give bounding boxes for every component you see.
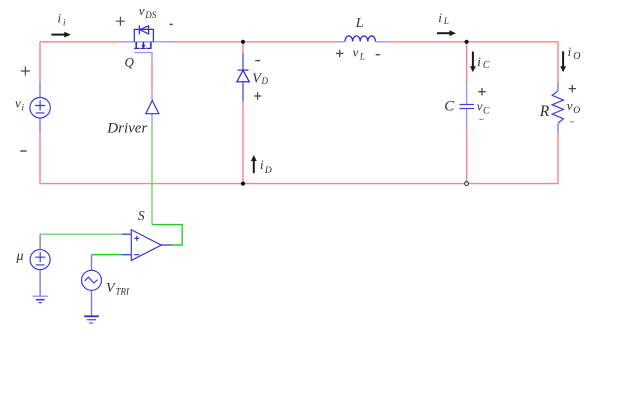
svg-text:C: C bbox=[483, 106, 490, 116]
wire comparator output stub blue bbox=[161, 244, 172, 246]
arrow ii bbox=[51, 34, 64, 36]
svg-text:S: S bbox=[138, 208, 145, 223]
wire gate lead light-blue bbox=[135, 53, 153, 124]
wire gate signal pale-green vertical (Driver to comparator net) bbox=[151, 124, 153, 225]
arrow iO bbox=[562, 51, 564, 66]
inductor L bbox=[345, 36, 375, 42]
ground (mu) bbox=[33, 295, 49, 297]
transistor Q (MOSFET with body diode) bbox=[134, 25, 153, 42]
wire inductor light-blue stubs bbox=[336, 41, 387, 43]
svg-text:Driver: Driver bbox=[106, 120, 147, 136]
ground (VTRI) bbox=[84, 315, 99, 317]
svg-text:O: O bbox=[573, 106, 580, 116]
wire VTRI source stubs blue bbox=[91, 255, 93, 317]
arrow iD bbox=[253, 161, 255, 174]
svg-text:D: D bbox=[261, 76, 269, 86]
svg-text:R: R bbox=[539, 103, 550, 120]
svg-text:v: v bbox=[15, 96, 21, 111]
node junction at diode bottom bbox=[241, 182, 245, 186]
label VD with polarity bbox=[255, 60, 260, 62]
wire comparator input stubs blue bbox=[122, 234, 131, 255]
capacitor C bbox=[460, 105, 475, 109]
node open terminal at capacitor bottom bbox=[465, 182, 469, 186]
svg-text:L: L bbox=[443, 16, 449, 26]
label vO with polarity bbox=[569, 85, 576, 92]
dc source mu bbox=[30, 250, 50, 270]
wire capacitor stubs bbox=[466, 83, 468, 131]
svg-text:i: i bbox=[438, 10, 442, 25]
wire top-left red segment bbox=[40, 41, 120, 43]
wire mu to comparator pale-green bbox=[40, 233, 122, 235]
voltage source vi bbox=[30, 98, 50, 118]
node junction at diode top bbox=[241, 40, 245, 44]
svg-text:V: V bbox=[106, 281, 116, 296]
svg-text:v: v bbox=[353, 45, 359, 60]
triangle-wave source VTRI bbox=[82, 270, 102, 290]
label vC with polarity bbox=[478, 88, 485, 95]
svg-text:i: i bbox=[477, 54, 481, 69]
wire right red segments bbox=[557, 42, 559, 184]
wire comparator output bright-green bbox=[152, 225, 182, 245]
svg-text:C: C bbox=[483, 60, 490, 71]
svg-text:D: D bbox=[264, 166, 272, 176]
comparator plus input mark bbox=[134, 236, 139, 241]
diode VD bbox=[237, 70, 249, 82]
wire mu source stubs blue bbox=[39, 234, 41, 296]
svg-text:O: O bbox=[573, 51, 580, 62]
svg-text:C: C bbox=[444, 98, 455, 114]
comparator minus input mark bbox=[134, 254, 139, 256]
svg-text:L: L bbox=[355, 16, 364, 31]
svg-text:v: v bbox=[139, 3, 145, 18]
wire vi source stubs bbox=[39, 81, 41, 133]
wire VTRI to comparator bright-green bbox=[92, 254, 123, 256]
arrow iL bbox=[437, 32, 450, 34]
wire top light-blue stub through Q bbox=[120, 41, 172, 43]
label vi with polarity bbox=[21, 67, 30, 76]
resistor R bbox=[552, 91, 563, 124]
label vDS with polarity bbox=[116, 17, 125, 26]
comparator U1 bbox=[131, 230, 161, 261]
svg-text:v: v bbox=[567, 98, 573, 113]
wire capacitor-branch red segments bbox=[466, 42, 468, 184]
wire resistor stubs bbox=[557, 83, 559, 134]
svg-text:Q: Q bbox=[125, 55, 135, 70]
wire left red segments bbox=[39, 42, 41, 184]
svg-text:i: i bbox=[568, 44, 572, 59]
wire gate red segment bbox=[151, 62, 153, 91]
svg-text:TRI: TRI bbox=[116, 287, 131, 297]
wire bottom red segment bbox=[40, 183, 558, 185]
wire diode-branch red segments bbox=[242, 42, 244, 184]
driver buffer triangle bbox=[146, 101, 159, 114]
wire top-right red segment (L to top-right corner) bbox=[387, 41, 558, 43]
node junction at capacitor top bbox=[465, 40, 469, 44]
svg-text:i: i bbox=[260, 157, 264, 172]
label vL with polarity bbox=[336, 50, 343, 57]
svg-text:L: L bbox=[359, 52, 365, 62]
svg-text:i: i bbox=[58, 11, 62, 26]
svg-text:v: v bbox=[477, 98, 483, 113]
svg-text:DS: DS bbox=[144, 10, 156, 20]
wire top-middle red segment (Q to L) bbox=[172, 41, 337, 43]
arrow iC bbox=[472, 52, 474, 67]
svg-text:μ: μ bbox=[16, 249, 24, 264]
wire diode stubs bbox=[242, 53, 244, 102]
